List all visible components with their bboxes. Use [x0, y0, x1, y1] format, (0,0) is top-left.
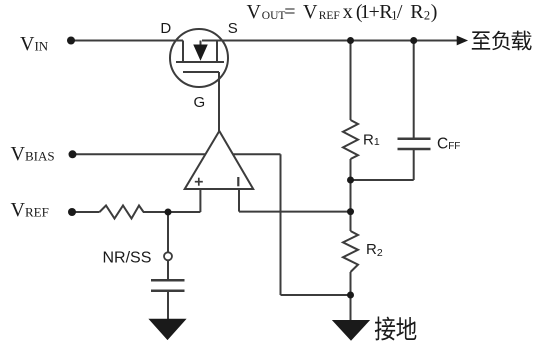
svg-text:V: V — [303, 1, 318, 23]
svg-text:VREF: VREF — [11, 199, 49, 221]
svg-text:CFF: CFF — [437, 135, 460, 152]
svg-text:/: / — [397, 1, 403, 23]
svg-text:NR/SS: NR/SS — [103, 250, 152, 267]
svg-text:R1: R1 — [363, 132, 380, 149]
svg-text:S: S — [228, 20, 238, 37]
svg-text:R: R — [410, 1, 424, 23]
svg-text:OUT: OUT — [262, 10, 286, 22]
svg-text:R2: R2 — [366, 241, 383, 259]
svg-text:=: = — [284, 1, 295, 23]
svg-text:VBIAS: VBIAS — [11, 143, 55, 165]
svg-text:): ) — [431, 1, 438, 23]
svg-text:REF: REF — [319, 10, 340, 22]
svg-text:V: V — [247, 1, 262, 23]
svg-text:x: x — [343, 1, 353, 23]
svg-text:VIN: VIN — [20, 33, 49, 55]
svg-text:D: D — [160, 20, 171, 37]
svg-text:+: + — [369, 1, 380, 23]
svg-text:G: G — [193, 94, 205, 111]
svg-text:2: 2 — [424, 8, 430, 22]
